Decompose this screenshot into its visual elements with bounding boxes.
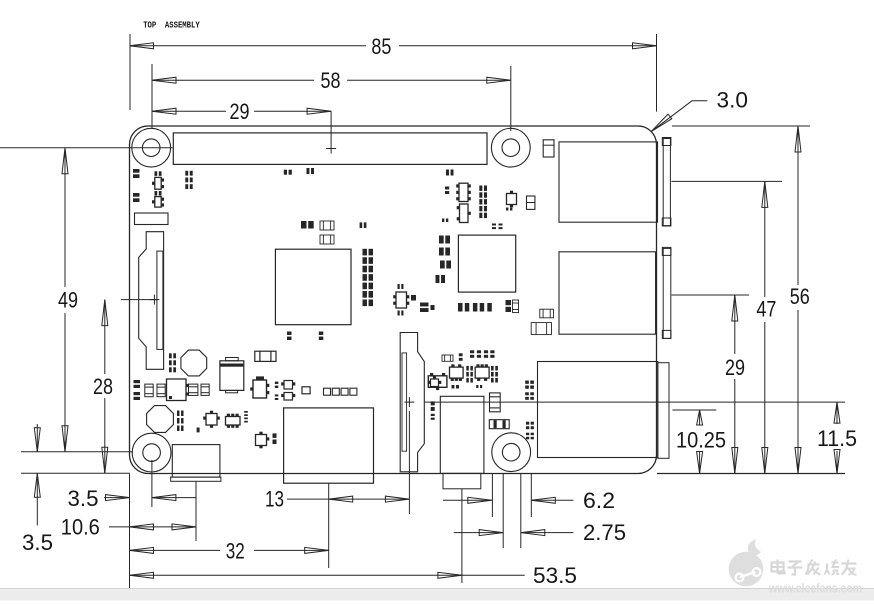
transistor Q2 bbox=[152, 191, 164, 207]
resistor pair R2 bbox=[189, 384, 210, 395]
svg-text:53.5: 53.5 bbox=[533, 563, 577, 588]
dimension 53.5 bbox=[130, 563, 578, 588]
resistor row right of HDMI bbox=[324, 388, 357, 395]
capacitor C50 vertical bbox=[490, 393, 501, 412]
pads below-left of RAM bbox=[420, 303, 435, 313]
extension line 10.25 ref bbox=[672, 409, 716, 411]
dimension 6.2 bbox=[443, 488, 615, 513]
IC U9 bbox=[203, 411, 220, 428]
bottom gray bar bbox=[0, 589, 874, 601]
mounting hole H3 bottom-left bbox=[132, 433, 171, 472]
HDMI connector J7 bbox=[284, 408, 374, 483]
extension line board-right-top bbox=[656, 34, 658, 112]
svg-text:11.5: 11.5 bbox=[817, 426, 857, 451]
svg-text:49: 49 bbox=[58, 288, 78, 313]
IC U10 bbox=[226, 414, 241, 428]
extension line hole4 right outer bbox=[530, 474, 532, 517]
square pad left of HDMI bbox=[302, 387, 310, 394]
svg-text:TOP ASSEMBLY: TOP ASSEMBLY bbox=[143, 20, 200, 30]
dimension 3.5 bottom bbox=[68, 486, 197, 511]
IC U12 small bbox=[281, 393, 295, 401]
smd pads left edge top bbox=[133, 169, 140, 202]
dimension 32 bbox=[130, 538, 329, 563]
capacitor column left2 bbox=[177, 411, 184, 432]
dimension 29 right bbox=[725, 295, 745, 474]
extension line board-top-right bbox=[672, 125, 810, 127]
pads below SoC bbox=[287, 332, 323, 341]
extension line dsi center bbox=[121, 299, 158, 301]
DSI display connector J3 bbox=[139, 232, 164, 370]
pads right of Q7 bbox=[275, 382, 279, 400]
svg-text:29: 29 bbox=[725, 355, 745, 380]
capacitor column left bbox=[169, 353, 176, 372]
transistor Q5 bbox=[428, 373, 447, 390]
USB connector J12 top bbox=[559, 138, 671, 227]
capacitor C32 bbox=[531, 323, 551, 335]
pads near U10 bbox=[197, 411, 248, 432]
svg-text:56: 56 bbox=[790, 284, 810, 309]
transistor Q3 bbox=[507, 191, 517, 208]
extension line musb center bbox=[195, 482, 197, 542]
decoupling capacitor column right of SoC bbox=[363, 249, 374, 306]
extension line hole3 center bottom bbox=[151, 460, 153, 507]
dimension 3.5 left bbox=[22, 424, 53, 555]
resistor left of HDMI bbox=[255, 351, 276, 361]
component RT1 bbox=[135, 213, 169, 225]
capacitor pair near USB1 bbox=[527, 196, 535, 209]
resistor column A bbox=[466, 366, 473, 383]
svg-text:47: 47 bbox=[756, 296, 776, 321]
svg-text:28: 28 bbox=[93, 374, 113, 399]
mounting hole H4 bottom-right bbox=[492, 433, 531, 472]
capacitor C6 can bbox=[220, 358, 244, 393]
IC U3 bbox=[456, 183, 471, 201]
dimension 58 bbox=[152, 68, 511, 93]
transistor Q7 tab bbox=[250, 376, 269, 398]
extension line board-bottom-right bbox=[657, 473, 845, 475]
capacitor C42 bbox=[459, 353, 463, 361]
RAM U2 bbox=[458, 235, 515, 292]
pad pairs left of ethernet bbox=[525, 381, 534, 440]
SoC U1 BCM2837 bbox=[275, 249, 351, 325]
dimension 56 bbox=[790, 126, 810, 474]
svg-text:6.2: 6.2 bbox=[583, 488, 615, 513]
svg-text:10.25: 10.25 bbox=[676, 427, 726, 452]
mounting hole H1 top-left bbox=[132, 128, 171, 167]
dimension 49 bbox=[58, 148, 78, 452]
tantalum capacitor C19 bbox=[543, 140, 554, 157]
IC U4 bbox=[457, 204, 471, 223]
extension line csi center bottom bbox=[408, 411, 410, 514]
smd pads left edge below DSI bbox=[134, 380, 141, 400]
GPIO header J8 bbox=[173, 133, 487, 165]
extension line hole2 center top bbox=[510, 66, 512, 131]
dimension 3.0 corner radius bbox=[651, 88, 748, 132]
extension line hole3 left bbox=[21, 451, 133, 453]
capacitor C small bbox=[442, 187, 512, 230]
resistor column B bbox=[491, 366, 498, 383]
mounting hole H2 top-right bbox=[491, 128, 530, 167]
extension line usb2 center bbox=[672, 294, 750, 296]
extension line gpio center bbox=[330, 111, 332, 143]
capacitor C41 bbox=[442, 355, 453, 361]
resistor pair R bbox=[145, 384, 165, 397]
extension line hole4 left inner bbox=[502, 474, 504, 548]
watermark elecfans logo bbox=[729, 539, 862, 596]
transistor Q1 bbox=[152, 171, 164, 189]
transistor Q6 bbox=[256, 432, 277, 449]
dimension 10.25 bbox=[676, 410, 726, 474]
pads left of AV jack bbox=[431, 401, 435, 419]
smd pad row under header bbox=[284, 168, 454, 176]
dimension 2.75 bbox=[454, 520, 626, 545]
AV jack J5 bbox=[440, 396, 484, 489]
svg-text:2.75: 2.75 bbox=[583, 520, 626, 545]
svg-text:www.elecfans.com: www.elecfans.com bbox=[768, 581, 862, 596]
micro-USB power J1 bbox=[171, 445, 221, 482]
extension line av center bottom bbox=[461, 489, 463, 583]
svg-text:58: 58 bbox=[321, 68, 341, 93]
capacitor C51 bbox=[489, 420, 509, 429]
dimension 28 bbox=[93, 300, 113, 474]
resistor row R bank bbox=[470, 350, 495, 358]
IC U6 square bbox=[167, 379, 189, 401]
svg-text:85: 85 bbox=[371, 34, 391, 59]
extension line board-left-bottom bbox=[129, 474, 131, 591]
capacitors left of RAM bbox=[436, 236, 452, 284]
extension line hole1 left bbox=[0, 147, 173, 149]
Ethernet jack J6 bbox=[538, 362, 670, 459]
component right of CSI bbox=[428, 376, 442, 386]
inductor L1 octagon bbox=[181, 350, 207, 376]
dimension 85 bbox=[130, 34, 657, 59]
IC U8 bbox=[475, 364, 489, 381]
dimension 47 bbox=[756, 181, 776, 473]
capacitor bank C left bbox=[185, 171, 192, 189]
svg-text:3.5: 3.5 bbox=[22, 530, 53, 555]
extension line usb1 center bbox=[672, 180, 783, 182]
dimension 11.5 bbox=[817, 402, 857, 473]
dimension 29 top bbox=[152, 99, 331, 124]
USB connector J13 bbox=[559, 247, 671, 338]
IC U11 small bbox=[281, 381, 295, 390]
inductor L2 octagon bbox=[147, 406, 174, 433]
pads below U7 U8 bbox=[452, 385, 483, 389]
dimension 13 bbox=[265, 487, 409, 512]
PCB board outline 85x56 bbox=[130, 126, 657, 474]
extension line hole4 right inner bbox=[520, 474, 522, 548]
svg-text:10.6: 10.6 bbox=[61, 515, 100, 540]
extension line board-bottom-left bbox=[21, 472, 130, 474]
extension line hdmi center bbox=[328, 484, 330, 569]
svg-text:32: 32 bbox=[226, 538, 245, 563]
pads above RAM bbox=[360, 222, 367, 228]
extension line hole1 center top bbox=[151, 64, 153, 129]
svg-text:3.5: 3.5 bbox=[68, 486, 99, 511]
IC U7 bbox=[450, 364, 464, 381]
CSI camera connector J4 bbox=[400, 333, 424, 472]
svg-text:13: 13 bbox=[265, 487, 284, 512]
extension line hole4 left outer bbox=[491, 474, 493, 517]
capacitor column C right of header bbox=[479, 186, 487, 219]
svg-text:29: 29 bbox=[230, 99, 250, 124]
svg-text:3.0: 3.0 bbox=[717, 88, 749, 113]
dimension 10.6 bbox=[61, 515, 196, 540]
extension line 11.5 ref bbox=[425, 401, 845, 403]
extension line board-left-top bbox=[129, 34, 131, 110]
capacitor row below RAM bbox=[458, 300, 519, 313]
IC U5 mid bbox=[393, 284, 416, 316]
title TOP ASSEMBLY bbox=[143, 20, 200, 30]
capacitor C31 bbox=[540, 309, 554, 318]
capacitors above SoC bbox=[301, 221, 334, 244]
